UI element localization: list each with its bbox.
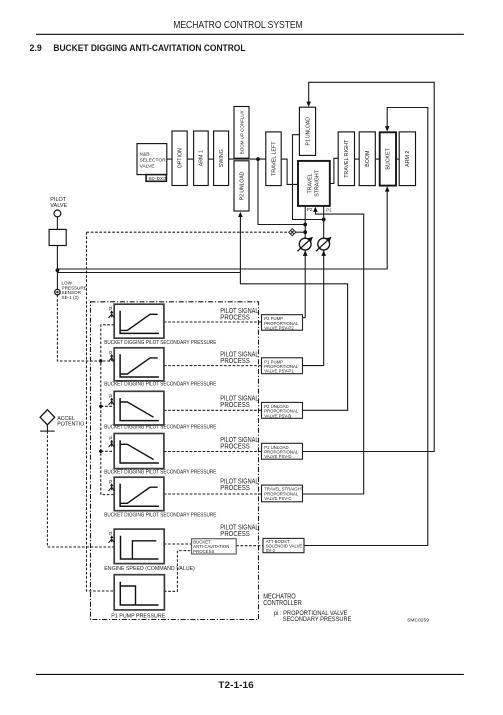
svg-text:VALVE PSV-P1: VALVE PSV-P1 xyxy=(264,369,294,374)
svg-text:BUCKET DIGGING PILOT SECONDARY: BUCKET DIGGING PILOT SECONDARY PRESSURE xyxy=(104,470,216,476)
svg-text:SWING: SWING xyxy=(219,149,225,167)
svg-text:BUCKET DIGGING PILOT SECONDARY: BUCKET DIGGING PILOT SECONDARY PRESSURE xyxy=(104,512,216,518)
svg-text:MECHATRO CONTROL SYSTEM: MECHATRO CONTROL SYSTEM xyxy=(173,20,303,31)
svg-text:VALVE PSV-P2: VALVE PSV-P2 xyxy=(264,326,294,331)
svg-text:T2-1-16: T2-1-16 xyxy=(218,680,254,690)
svg-text:SMC0259: SMC0259 xyxy=(407,618,429,624)
svg-text:PROCESS: PROCESS xyxy=(220,402,250,409)
svg-text:PROCESS: PROCESS xyxy=(220,443,250,450)
svg-text:SD-DX0: SD-DX0 xyxy=(148,176,166,181)
svg-text:PILOT: PILOT xyxy=(50,197,67,203)
svg-text:VALVE PSV-D: VALVE PSV-D xyxy=(264,454,291,459)
svg-text:OPTION: OPTION xyxy=(177,148,183,168)
svg-text:TRAVEL: TRAVEL xyxy=(308,173,314,193)
svg-text:PROCESS: PROCESS xyxy=(193,549,214,554)
svg-text:BUCKET DIGGING ANTI-CAVITATION: BUCKET DIGGING ANTI-CAVITATION CONTROL xyxy=(53,43,246,53)
svg-text:POTENTIO: POTENTIO xyxy=(57,421,84,427)
svg-text:P2 UNLOAD: P2 UNLOAD xyxy=(239,171,245,200)
svg-text:PROCESS: PROCESS xyxy=(220,531,250,538)
svg-text:PROCESS: PROCESS xyxy=(220,314,250,321)
svg-text:VALVE: VALVE xyxy=(50,203,67,209)
svg-text:SECONDARY PRESSURE: SECONDARY PRESSURE xyxy=(283,616,352,623)
svg-text:TRAVEL LEFT: TRAVEL LEFT xyxy=(271,141,277,176)
svg-text:CONTROLLER: CONTROLLER xyxy=(263,600,302,607)
svg-text:ARM 1: ARM 1 xyxy=(199,150,205,166)
svg-text:BUCKET DIGGING PILOT SECONDARY: BUCKET DIGGING PILOT SECONDARY PRESSURE xyxy=(104,424,216,430)
svg-text:PROCESS: PROCESS xyxy=(220,358,250,365)
svg-text:ENGINE SPEED (COMMAND VALUE): ENGINE SPEED (COMMAND VALUE) xyxy=(104,566,195,572)
svg-text:P2: P2 xyxy=(307,207,313,212)
svg-text:P1: P1 xyxy=(326,208,332,213)
svg-text:VALVE PSV-C: VALVE PSV-C xyxy=(264,496,291,501)
svg-text:SELECTOR: SELECTOR xyxy=(140,157,167,163)
svg-text:ARM 2: ARM 2 xyxy=(405,151,411,167)
svg-text:SE-1 (2): SE-1 (2) xyxy=(62,295,80,300)
svg-text:BUCKET: BUCKET xyxy=(386,147,392,169)
svg-text:PROCESS: PROCESS xyxy=(220,485,250,492)
svg-text:VALVE PSV-B: VALVE PSV-B xyxy=(264,413,291,418)
svg-text:VALVE: VALVE xyxy=(140,164,156,170)
svg-text:P1 UNLOAD: P1 UNLOAD xyxy=(305,117,311,146)
svg-text:BUCKET DIGGING PILOT SECONDARY: BUCKET DIGGING PILOT SECONDARY PRESSURE xyxy=(104,340,216,346)
svg-text:N&B: N&B xyxy=(140,151,150,157)
svg-text:STRAIGHT: STRAIGHT xyxy=(315,169,321,197)
svg-text:TRAVEL RIGHT: TRAVEL RIGHT xyxy=(344,139,350,178)
svg-text:2.9: 2.9 xyxy=(30,43,42,53)
svg-text:BOOM UP CONFLUX: BOOM UP CONFLUX xyxy=(239,110,244,154)
svg-text:P1 PUMP PRESSURE: P1 PUMP PRESSURE xyxy=(111,613,165,619)
svg-text:SV-2: SV-2 xyxy=(266,548,276,553)
svg-text:BOOM: BOOM xyxy=(365,151,371,167)
svg-text:BUCKET DIGGING PILOT SECONDARY: BUCKET DIGGING PILOT SECONDARY PRESSURE xyxy=(104,382,216,388)
